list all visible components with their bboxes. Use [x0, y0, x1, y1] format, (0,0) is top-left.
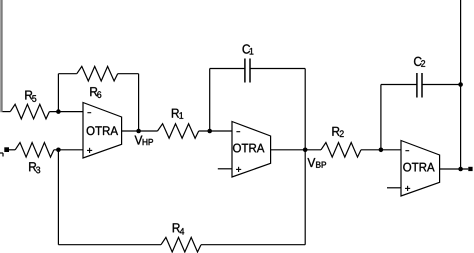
input terminal square	[4, 147, 9, 152]
label R5	[25, 91, 32, 100]
pin minus input U2	[236, 131, 240, 133]
wire C2 top left	[381, 84, 417, 86]
node VHP	[136, 129, 141, 134]
wire top right vertical	[460, 0, 462, 169]
node junction R1/C1	[207, 129, 212, 134]
op-amp U3 OTRA	[401, 141, 440, 197]
wire R1 to OTRA2	[199, 130, 232, 132]
wire OTRA1 output	[122, 130, 158, 132]
wire C2 top right	[422, 84, 461, 86]
pin plus input U2	[236, 168, 241, 170]
label R4	[173, 223, 180, 232]
op-amp U1 OTRA	[83, 103, 122, 159]
wire R6 top right	[118, 73, 139, 75]
node junction R3/feedback	[56, 148, 61, 153]
resistor R4	[161, 237, 201, 252]
pin plus input U1	[87, 149, 92, 151]
label C1	[243, 44, 251, 53]
node junction C2/top vertical	[458, 82, 463, 87]
output terminal square	[468, 167, 472, 171]
node VBP	[303, 148, 308, 153]
wire R6 top left	[58, 73, 76, 75]
wire OTRA2 output	[271, 149, 321, 151]
wire feedback bottom right	[201, 244, 305, 246]
pin plus input U3	[405, 187, 410, 189]
resistor R6	[77, 66, 118, 81]
wire: input line to minus input	[3, 111, 11, 113]
op-amp U2 OTRA	[232, 122, 271, 178]
wire square to R3	[9, 149, 15, 151]
wire OTRA2 plus stub	[218, 168, 232, 170]
wire C1 top left	[210, 68, 245, 70]
label R2	[332, 127, 339, 136]
wire feedback bottom left	[58, 244, 161, 246]
label R3	[29, 162, 36, 171]
capacitor C1	[244, 59, 246, 83]
wire R6 right vertical to VHP	[138, 74, 140, 131]
label U1 OTRA	[87, 126, 118, 135]
resistor R2	[321, 143, 361, 158]
label node VHP	[135, 136, 143, 145]
wire R2 to OTRA3	[361, 149, 401, 151]
capacitor C2	[416, 73, 418, 98]
wire C1 top right	[250, 68, 305, 70]
wire C1 right vertical down through VBP to feedback	[304, 69, 306, 245]
wire feedback left vertical	[57, 150, 59, 245]
wire C2 left vertical	[380, 85, 382, 150]
wire R6 branch left vertical	[57, 74, 59, 112]
label C2	[414, 57, 422, 66]
wire	[49, 111, 83, 113]
resistor R5	[10, 104, 49, 119]
node output junction	[458, 167, 463, 172]
resistor R3	[15, 143, 54, 158]
resistor R1	[158, 124, 199, 139]
label U3 OTRA	[403, 163, 434, 172]
input label fragment	[0, 152, 3, 154]
label R1	[172, 109, 179, 118]
label U2 OTRA	[233, 144, 264, 153]
node junction R2/C2	[379, 148, 384, 153]
pin minus input U1	[87, 112, 91, 114]
gray screenshot edge	[0, 0, 2, 112]
label R6	[90, 87, 97, 96]
wire OTRA3 plus stub	[387, 187, 401, 189]
wire C1 left vertical	[209, 69, 211, 132]
node junction R5/R6	[56, 109, 61, 114]
pin minus input U3	[405, 150, 409, 152]
label node VBP	[307, 158, 315, 167]
wire OTRA3 output	[440, 168, 469, 170]
wire R3 to plus input	[54, 149, 83, 151]
